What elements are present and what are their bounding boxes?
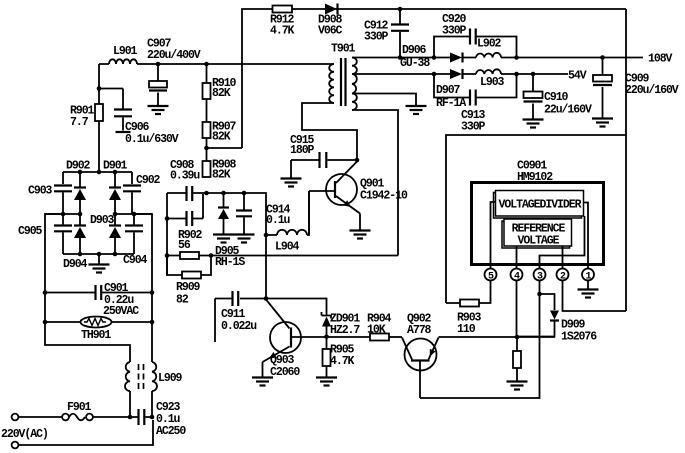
ground below C914 — [234, 235, 255, 243]
capacitor C923 — [130, 416, 152, 418]
node junction bottom D904 — [78, 252, 83, 257]
node junction L903 right on 54V — [514, 72, 519, 77]
node junction bridge top R901 — [97, 170, 102, 175]
node junction bottom ground — [97, 252, 102, 257]
node junction TH901 left — [43, 320, 48, 325]
capacitor C912 — [399, 9, 401, 58]
pin 3 — [534, 269, 546, 281]
node junction mid D902/D904 — [78, 212, 83, 217]
svg-text:220V(AC): 220V(AC) — [1, 428, 48, 441]
wire C908 left rail — [166, 193, 168, 275]
svg-text:D904: D904 — [63, 258, 88, 271]
wire pin1 lead to ground — [587, 281, 589, 290]
svg-text:10K: 10K — [367, 324, 386, 337]
svg-text:250VAC: 250VAC — [103, 305, 139, 318]
ground bridge negative — [89, 265, 110, 273]
svg-text:L909: L909 — [158, 372, 183, 385]
svg-text:54V: 54V — [568, 70, 587, 83]
wire pin4 internal — [516, 246, 518, 269]
wire Q903 base / main control rail y=337 — [292, 336, 370, 338]
ground below D905 — [213, 235, 234, 243]
wire Q902 emitter rail to pin4 node — [439, 336, 556, 338]
node junction C909 top on 108V — [600, 55, 605, 60]
capacitor C920 bypass loop — [434, 37, 517, 58]
svg-text:C1942-10: C1942-10 — [360, 190, 408, 203]
wire AC rail left — [45, 214, 130, 362]
svg-text:V06C: V06C — [318, 25, 343, 38]
svg-text:L902: L902 — [477, 38, 502, 51]
node junction ZD901 / R905 — [324, 335, 329, 340]
wire ZD901 top feed — [266, 299, 327, 316]
node junction mid C902/C904 — [132, 212, 137, 217]
svg-text:C905: C905 — [18, 225, 43, 238]
node junction C907 top — [156, 62, 161, 67]
node junction R902 left — [165, 253, 170, 258]
svg-text:A778: A778 — [407, 324, 432, 337]
voltage divider block shadow — [494, 193, 582, 219]
transistor Q903 — [270, 322, 301, 353]
bridge top bus — [63, 171, 132, 173]
transformer T901 secondary winding — [352, 58, 357, 111]
wire primary bottom to Q901 collector node — [302, 103, 357, 160]
wire pin2 internal — [562, 246, 564, 269]
pin 1 — [582, 269, 594, 281]
voltage divider block — [496, 191, 584, 217]
node junction C901 left — [43, 290, 48, 295]
resistor R906 unlabeled — [516, 337, 518, 381]
resistor R901 — [98, 64, 100, 172]
node junction TH901 right — [150, 320, 155, 325]
node junction C910 top on 54V — [531, 72, 536, 77]
node junction pin4 / R906 — [515, 335, 520, 340]
capacitor C901 — [45, 292, 152, 294]
wire C908 node row — [167, 193, 266, 299]
capacitor C910 electrolytic — [532, 74, 534, 119]
svg-text:110: 110 — [457, 323, 476, 336]
node junction bottom D903 — [113, 252, 118, 257]
resistor R908 — [206, 138, 208, 161]
wire AC rail right — [134, 214, 152, 362]
svg-text:D902: D902 — [66, 160, 91, 173]
resistor R905 — [326, 337, 328, 377]
capacitor C909 electrolytic — [602, 58, 604, 119]
ground below C909 — [592, 119, 613, 127]
reference voltage block — [504, 219, 572, 246]
node junction R901 top — [97, 86, 102, 91]
svg-text:330P: 330P — [461, 121, 486, 134]
svg-text:RH-1S: RH-1S — [215, 256, 245, 269]
bridge mid bus right to AC rail — [115, 213, 152, 215]
svg-text:0.022u: 0.022u — [221, 320, 257, 333]
node junction L902 right on 108V — [514, 55, 519, 60]
fuse F901 — [18, 416, 62, 418]
zener ZD901 — [322, 312, 332, 319]
diode D909 — [517, 294, 555, 337]
capacitor C907 electrolytic — [157, 64, 159, 105]
ground below C910 — [523, 120, 544, 128]
resistor R902 — [167, 255, 211, 257]
ground secondary center tap — [406, 106, 427, 114]
diode D907 — [450, 69, 462, 79]
svg-text:D907: D907 — [436, 84, 461, 97]
resistor R910 — [206, 64, 208, 83]
diode D906 — [450, 53, 462, 63]
svg-text:C910: C910 — [544, 91, 569, 104]
bridge mid bus left to AC rail — [45, 213, 80, 215]
node junction C923 left — [128, 415, 133, 420]
svg-text:T901: T901 — [331, 43, 356, 56]
svg-text:1S2076: 1S2076 — [561, 331, 597, 344]
node junction C908 lower left — [165, 216, 170, 221]
svg-text:HZ2.7: HZ2.7 — [330, 324, 360, 337]
svg-text:TH901: TH901 — [81, 329, 111, 342]
wire right vertical rail x=626 from snubber line down to pin2 wire — [625, 9, 627, 311]
node junction C912 top — [398, 7, 403, 12]
resistor R903 — [446, 281, 491, 304]
node junction Q903 collector / C911 / ZD901 — [264, 296, 269, 301]
inductor L901 — [109, 59, 137, 64]
node junction C920 left on 108V — [432, 55, 437, 60]
transformer T901 core — [341, 58, 346, 106]
svg-text:D901: D901 — [103, 160, 128, 173]
svg-text:AC250: AC250 — [156, 425, 186, 438]
svg-text:4.7K: 4.7K — [270, 25, 295, 38]
capacitor C905 — [62, 214, 64, 254]
svg-text:180P: 180P — [290, 144, 315, 157]
capacitor C908 upper — [187, 186, 193, 201]
svg-text:R909: R909 — [176, 281, 201, 294]
svg-text:108V: 108V — [648, 53, 673, 66]
wire 108V rail — [352, 57, 643, 59]
svg-text:0.1u/630V: 0.1u/630V — [125, 133, 179, 146]
svg-text:C903: C903 — [28, 185, 53, 198]
wire L909 windings down to C923 row — [130, 391, 152, 417]
svg-text:L903: L903 — [480, 76, 505, 89]
diode D904 — [79, 214, 81, 254]
pin 4 — [511, 269, 523, 281]
wire secondary center tap to ground — [352, 94, 416, 106]
reference voltage block shadow — [502, 221, 570, 248]
svg-text:4.7K: 4.7K — [330, 355, 355, 368]
svg-text:56: 56 — [178, 239, 191, 252]
svg-text:220u/160V: 220u/160V — [625, 84, 679, 97]
svg-text:0.1u: 0.1u — [266, 214, 291, 227]
node junction C912 bottom on 108V — [398, 55, 403, 60]
svg-text:82K: 82K — [212, 131, 231, 144]
svg-text:L901: L901 — [113, 45, 138, 58]
resistor R907 — [206, 99, 208, 122]
wire pin2 to right rail — [563, 281, 627, 312]
svg-text:D903: D903 — [90, 214, 115, 227]
IC C0901 outline — [472, 183, 604, 265]
node junction Q901 collector / C915 / primary — [355, 158, 360, 163]
wire HV rail y=64 from R901 node to transformer primary — [99, 63, 334, 65]
ground below Q903 emitter — [252, 378, 273, 386]
svg-text:GU-38: GU-38 — [400, 57, 430, 70]
node junction mid C903/C905 — [61, 212, 66, 217]
node junction R907/R908 — [204, 146, 209, 151]
svg-text:VOLTAGEDIVIDER: VOLTAGEDIVIDER — [499, 199, 582, 212]
svg-text:220u/400V: 220u/400V — [147, 49, 201, 62]
node junction C914 top — [242, 191, 247, 196]
svg-text:D906: D906 — [402, 44, 427, 57]
diode D908 — [325, 4, 337, 15]
node junction C901 right — [150, 290, 155, 295]
wire Q901 base to L904 — [308, 191, 310, 235]
capacitor C906 — [99, 89, 123, 131]
node junction L904 left — [264, 233, 269, 238]
ground below Q901 emitter — [350, 231, 371, 239]
ground below R905 — [316, 378, 337, 386]
inductor L904 — [266, 191, 309, 235]
svg-text:330P: 330P — [442, 25, 467, 38]
wire Q902 base run to pin3 — [420, 281, 540, 399]
diode D902 — [79, 172, 81, 214]
wire pin1 internal — [584, 203, 589, 269]
wire feedback run to transformer bottom tap — [211, 255, 398, 257]
diode D901 — [114, 172, 116, 214]
svg-text:82K: 82K — [212, 169, 231, 182]
svg-text:82K: 82K — [212, 87, 231, 100]
node junction bridge top D902 — [78, 170, 83, 175]
capacitor C904 — [133, 214, 135, 254]
ground below R906 — [507, 382, 528, 390]
ground below C907 — [148, 106, 169, 114]
transistor Q902 — [405, 339, 437, 371]
thermistor TH901 — [45, 321, 152, 323]
svg-text:L904: L904 — [275, 241, 300, 254]
capacitor C911 — [215, 299, 266, 343]
capacitor C915 — [291, 160, 357, 178]
capacitor C903 — [62, 172, 64, 214]
svg-text:C902: C902 — [136, 174, 161, 187]
wire AC bottom to C923 right — [18, 420, 153, 445]
wire pin5 internal — [491, 202, 496, 269]
wire top snubber net from R907/R908 junction up and across to right rail — [207, 9, 627, 148]
svg-text:22u/160V: 22u/160V — [544, 104, 592, 117]
node junction R910 top — [204, 62, 209, 67]
node junction C923 right — [150, 415, 155, 420]
node junction C913 left on 54V — [432, 72, 437, 77]
node junction R908 bottom / C908 — [204, 191, 209, 196]
inductor L909 right winding — [152, 362, 157, 391]
capacitor C908 lower — [167, 194, 203, 219]
inductor L909 common mode choke left winding — [125, 362, 130, 391]
resistor R912 — [273, 6, 293, 13]
svg-text:82: 82 — [176, 294, 189, 307]
wire pin5 feedback loop left side and top — [446, 135, 626, 303]
terminal AC line top — [12, 414, 19, 421]
resistor R909 — [167, 256, 211, 276]
svg-text:F901: F901 — [67, 401, 92, 414]
pin 5 — [485, 269, 497, 281]
diode D903 — [114, 214, 116, 254]
inductor L902 — [476, 53, 501, 58]
capacitor C913 bypass loop — [434, 74, 517, 98]
node junction mid D901/D903 — [113, 212, 118, 217]
resistor R904 — [370, 334, 389, 341]
node junction pin3 / D909 — [537, 292, 542, 297]
wire secondary bottom tap feedback down — [352, 110, 398, 256]
inductor L903 — [476, 69, 501, 74]
bridge bottom bus — [63, 254, 134, 264]
capacitor C902 — [131, 172, 133, 214]
svg-text:7.7: 7.7 — [70, 116, 89, 129]
node junction R902/R909 right — [209, 253, 214, 258]
node junction bridge top D901 — [113, 170, 118, 175]
L909 core dashes — [139, 364, 144, 389]
ground below C915 — [281, 179, 302, 187]
transistor Q901 — [326, 174, 357, 205]
ground below pin1 — [578, 290, 599, 298]
wire pin3 internal — [540, 216, 585, 269]
svg-text:0.39u: 0.39u — [170, 170, 200, 183]
transformer T901 primary winding — [329, 64, 334, 103]
capacitor C914 — [243, 193, 245, 234]
node junction D905 top — [221, 191, 226, 196]
pin 2 — [557, 269, 569, 281]
diode D905 — [223, 193, 225, 234]
wire pin4 lead down — [516, 281, 518, 338]
svg-text:330P: 330P — [364, 31, 389, 44]
svg-text:HM9102: HM9102 — [517, 171, 553, 184]
terminal AC line bottom — [12, 442, 19, 449]
wire 54V rail — [352, 73, 568, 75]
svg-text:C2060: C2060 — [270, 366, 300, 379]
svg-text:VOLTAGE: VOLTAGE — [518, 235, 560, 248]
svg-text:C904: C904 — [123, 254, 148, 267]
